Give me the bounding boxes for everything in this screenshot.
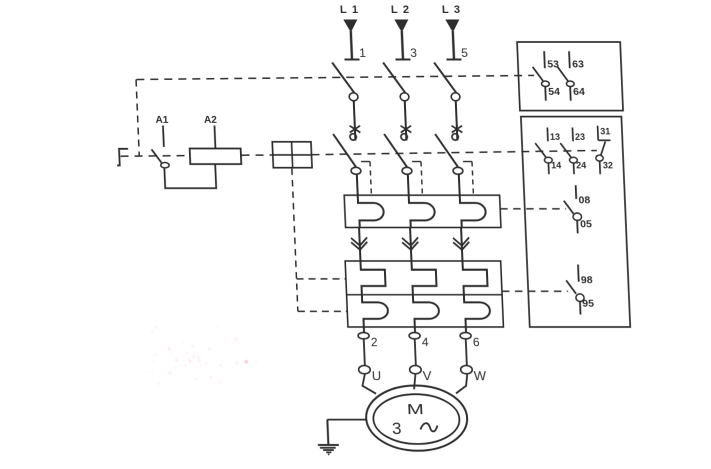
svg-text:5: 5 — [461, 46, 469, 60]
manual operator handle — [116, 149, 128, 166]
dashed link mechanism to overload releases — [292, 169, 298, 312]
terminal 2 — [358, 333, 378, 349]
svg-text:05: 05 — [580, 219, 592, 231]
svg-text:64: 64 — [573, 86, 585, 98]
mechanism box (crossed) — [272, 142, 312, 168]
wire W to motor — [455, 374, 468, 393]
svg-text:A2: A2 — [204, 115, 218, 126]
dashed link line control row (mid) — [242, 154, 273, 156]
wire terminal 4 to V — [415, 339, 416, 365]
trip arrow pole 2 — [402, 237, 419, 249]
trip arrow pole 3 — [453, 237, 470, 249]
svg-text:3: 3 — [410, 46, 418, 60]
breaker pole contact 2 — [383, 63, 412, 141]
svg-text:4: 4 — [422, 335, 430, 349]
terminal 6 — [460, 333, 480, 349]
svg-text:54: 54 — [548, 86, 560, 98]
wire terminal 6 to W — [466, 339, 467, 365]
svg-text:1: 1 — [359, 46, 367, 60]
svg-text:3: 3 — [392, 419, 402, 438]
wire A1 contact to coil loop — [164, 164, 216, 188]
wire heater box to release box pole 1 — [359, 228, 360, 262]
dashed link line control row to aux contacts — [311, 151, 597, 155]
svg-text:6: 6 — [473, 335, 481, 349]
svg-text:A1: A1 — [155, 115, 169, 126]
wire V to motor — [413, 374, 416, 389]
breaker pole contact 1 — [332, 63, 361, 141]
svg-text:L 1: L 1 — [340, 4, 360, 16]
overload heater box — [344, 195, 501, 227]
breaker pole contact 3 — [434, 63, 463, 141]
wire heater box to release box pole 3 — [461, 228, 462, 262]
svg-text:13: 13 — [550, 132, 560, 142]
svg-text:2: 2 — [371, 335, 379, 349]
aux contact box (53-64) — [517, 42, 623, 111]
mechanical link dash pole 1 — [361, 162, 371, 194]
contactor main contact 3 — [435, 134, 463, 174]
svg-text:U: U — [371, 368, 381, 383]
ground — [317, 420, 339, 456]
contact A1 — [150, 126, 169, 168]
wire contactor to overload box pole 2 — [407, 175, 410, 196]
svg-text:63: 63 — [572, 59, 584, 71]
trip arrow pole 1 — [351, 237, 368, 249]
dashed branch to release box upper — [297, 278, 347, 280]
supply terminal L3 — [442, 4, 469, 60]
svg-text:V: V — [422, 368, 432, 383]
wire motor to ground — [327, 419, 366, 421]
release element pole 2 — [411, 261, 439, 333]
motor terminal U — [358, 366, 381, 383]
wire contactor to overload box pole 3 — [458, 175, 461, 196]
dashed link line breaker poles to aux contacts 53-64 — [136, 75, 534, 79]
trip contact 98-95 — [566, 265, 595, 315]
contactor main contact 1 — [333, 134, 361, 174]
svg-text:98: 98 — [581, 274, 593, 286]
trip contact 08-05 — [563, 185, 592, 233]
dashed link release box to contact 98-95 — [502, 290, 568, 292]
heater element pole 1 — [358, 195, 385, 227]
dashed link heater box to contact 08-05 — [500, 208, 566, 210]
wire U to motor — [362, 374, 376, 394]
svg-text:95: 95 — [582, 298, 594, 310]
motor terminal V — [409, 366, 432, 383]
motor terminal W — [460, 366, 487, 383]
svg-text:M: M — [407, 401, 425, 418]
heater element pole 2 — [409, 195, 436, 227]
svg-text:53: 53 — [547, 59, 559, 71]
contactor main contact 2 — [384, 134, 412, 174]
wire terminal 2 to U — [364, 339, 365, 365]
svg-text:08: 08 — [578, 195, 590, 207]
dashed link line control row (left) — [121, 155, 190, 158]
overload release box — [345, 261, 503, 327]
mechanical link dash pole 3 — [463, 162, 473, 194]
aux contact 31-32 (NC) — [594, 126, 613, 175]
aux contact box (13-32, 05-08, 95-98) — [521, 117, 630, 327]
aux contact 13-14 — [535, 128, 562, 175]
coil lead A2 — [213, 126, 216, 149]
svg-text:32: 32 — [603, 161, 613, 171]
release element pole 3 — [462, 261, 490, 333]
dashed link vertical top-left — [136, 80, 139, 156]
supply terminal L2 — [391, 4, 418, 60]
svg-text:L 2: L 2 — [391, 4, 411, 16]
mechanical link dash pole 2 — [412, 162, 422, 194]
aux contact 53-54 — [532, 51, 561, 100]
motor M1 — [365, 386, 469, 451]
terminal 4 — [409, 333, 429, 349]
supply terminal L1 — [340, 4, 367, 60]
aux contact 63-64 — [557, 51, 586, 100]
wire contactor to overload box pole 1 — [356, 175, 359, 196]
svg-text:23: 23 — [575, 132, 585, 142]
release element pole 1 — [360, 261, 388, 333]
svg-text:31: 31 — [600, 127, 610, 137]
aux contact 23-24 — [560, 128, 587, 175]
contactor coil — [190, 149, 242, 165]
wire heater box to release box pole 2 — [410, 228, 411, 262]
svg-text:14: 14 — [551, 161, 561, 171]
svg-text:24: 24 — [576, 161, 586, 171]
svg-text:W: W — [473, 368, 487, 383]
heater element pole 3 — [460, 195, 487, 227]
svg-text:L 3: L 3 — [442, 4, 462, 16]
dashed branch to release box lower — [298, 310, 348, 312]
